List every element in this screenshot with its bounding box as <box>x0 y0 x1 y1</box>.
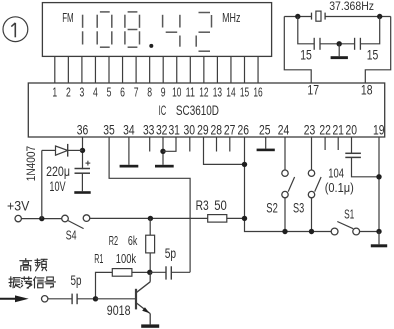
display module box <box>42 3 271 57</box>
wire pin19 rail <box>378 137 380 232</box>
ground bus <box>371 232 387 248</box>
svg-text:15: 15 <box>240 85 249 100</box>
svg-text:6k: 6k <box>128 234 138 248</box>
wire cap to pin35 riser <box>171 271 190 273</box>
svg-text:36: 36 <box>77 122 89 137</box>
7-segment digit 0 <box>97 12 112 47</box>
wire S1 to pin19 rail <box>360 231 379 233</box>
svg-text:20: 20 <box>346 122 358 137</box>
7-segment digit 1 <box>82 15 84 45</box>
label zhendang xinhao (Chinese: oscillation signal) <box>9 277 55 288</box>
ground crystal caps <box>331 44 348 59</box>
ground pin32 <box>155 165 174 168</box>
IC U1 SC3610D body <box>28 83 384 137</box>
ground emitter <box>141 324 159 327</box>
label S4 <box>66 228 77 242</box>
svg-text:S1: S1 <box>344 206 354 221</box>
svg-text:SC3610D: SC3610D <box>176 103 219 118</box>
figure number 1 in circle <box>3 17 28 42</box>
svg-text:35: 35 <box>103 122 115 137</box>
IC bottom pin numbers 36-19 <box>77 122 385 137</box>
label 5p input <box>71 273 82 288</box>
wire pin29 to pin26 rail <box>204 137 245 164</box>
label 6k <box>128 234 138 248</box>
node dot diode branch <box>39 216 44 221</box>
svg-text:8: 8 <box>147 85 152 100</box>
wire R1 right <box>132 271 150 273</box>
capacitor 15 left <box>314 38 320 50</box>
display pin wires 1-16 <box>55 56 258 83</box>
stub pin 33 <box>149 137 151 152</box>
svg-text:104: 104 <box>328 166 344 180</box>
label 15 right <box>367 48 379 63</box>
wire pin31 jog <box>163 137 176 151</box>
svg-text:22: 22 <box>319 122 331 137</box>
svg-text:25: 25 <box>259 122 271 137</box>
resistor R1 100k <box>112 269 132 277</box>
wire to pin 17 <box>284 17 311 84</box>
switch S2 <box>282 137 295 232</box>
svg-text:S3: S3 <box>293 201 304 216</box>
wire pin20 down <box>351 137 353 153</box>
wire pin35 L-path <box>109 137 190 272</box>
wire pin34 down <box>128 137 130 165</box>
wire to pin 18 <box>365 17 390 84</box>
svg-text:10V: 10V <box>49 179 65 194</box>
wire caps middle <box>320 43 355 45</box>
wire terminal to cap <box>48 298 72 300</box>
node dot S3 bus <box>309 229 314 234</box>
svg-text:9018: 9018 <box>107 303 131 318</box>
label R1 <box>94 251 103 266</box>
MHz label <box>222 10 240 25</box>
terminal +3V <box>15 215 21 221</box>
svg-text:MHz: MHz <box>222 10 240 25</box>
switch S3 <box>308 137 321 232</box>
svg-text:(0.1μ): (0.1μ) <box>325 181 354 195</box>
stub pin 21 <box>337 137 339 150</box>
diode 1N4007 <box>42 144 83 157</box>
resistor R3 50 <box>208 215 227 223</box>
wire crystal rail left <box>284 16 311 18</box>
FM label <box>62 11 73 25</box>
svg-text:14: 14 <box>226 85 235 100</box>
wire base <box>96 298 137 300</box>
svg-text:100k: 100k <box>116 251 137 266</box>
svg-text:31: 31 <box>168 122 180 137</box>
ground pin25 <box>257 149 275 152</box>
label S2 <box>266 201 278 216</box>
svg-text:18: 18 <box>361 81 373 97</box>
node dot crystal right <box>377 14 382 19</box>
svg-text:S2: S2 <box>266 201 278 216</box>
pin 18 label <box>361 81 373 97</box>
svg-text:15: 15 <box>367 48 379 63</box>
label 9018 <box>107 303 131 318</box>
node dot bus pin19 <box>376 229 381 234</box>
label +3V <box>7 198 29 213</box>
capacitor 5p input <box>72 294 77 305</box>
wire right branch to caps <box>360 17 379 44</box>
svg-text:33: 33 <box>143 122 155 137</box>
resistor R2 6k <box>146 235 155 253</box>
capacitor 104 <box>345 153 361 157</box>
label 50 <box>214 198 227 213</box>
stub pin 30 <box>189 137 191 152</box>
wire +3V to S4 <box>21 218 61 220</box>
wire cap to base node <box>77 298 95 300</box>
svg-text:5p: 5p <box>71 273 82 288</box>
label 10V <box>49 179 65 194</box>
capacitor 15 right <box>355 38 361 50</box>
label gaopin (Chinese: high frequency) <box>20 259 47 271</box>
node dot R3 right <box>242 216 247 221</box>
label 37.368Hz <box>329 0 374 13</box>
input terminal <box>42 296 48 302</box>
svg-text:S4: S4 <box>66 228 77 242</box>
wire crystal rail right <box>325 16 391 18</box>
svg-text:10: 10 <box>172 85 181 100</box>
node dot pin29 junction <box>242 162 247 167</box>
svg-text:220μ: 220μ <box>46 164 70 179</box>
svg-text:2: 2 <box>66 85 71 100</box>
wire collector to cap <box>150 271 166 273</box>
label 1N4007 <box>24 146 38 182</box>
svg-text:28: 28 <box>211 122 223 137</box>
svg-text:R3: R3 <box>196 198 209 213</box>
label S1 <box>344 206 354 221</box>
svg-text:6: 6 <box>120 85 125 100</box>
wire pin32 down <box>162 137 164 165</box>
7-segment digit 2 <box>196 13 211 52</box>
svg-text:26: 26 <box>238 122 250 137</box>
7-segment digit 8 <box>125 12 140 47</box>
svg-text:3: 3 <box>80 85 85 100</box>
svg-text:32: 32 <box>156 122 168 137</box>
svg-text:1: 1 <box>52 85 57 100</box>
svg-text:30: 30 <box>184 122 196 137</box>
svg-text:IC: IC <box>159 103 167 118</box>
decimal point <box>149 44 153 48</box>
node dot R2 top <box>148 216 153 221</box>
node dot collector <box>147 270 152 275</box>
node dot base <box>93 296 98 301</box>
node dot S2 bus <box>282 229 287 234</box>
7-segment digit 4 <box>163 15 180 47</box>
svg-text:15: 15 <box>300 48 312 63</box>
svg-text:19: 19 <box>373 122 385 137</box>
IC name label <box>159 103 220 118</box>
svg-text:13: 13 <box>213 85 222 100</box>
wire R2 bottom <box>149 253 151 272</box>
capacitor 220u electrolytic <box>75 161 91 192</box>
switch S1 <box>331 222 359 235</box>
stub pin 27 <box>229 137 231 152</box>
pin 17 label <box>307 81 319 97</box>
wire R2 top <box>149 218 151 235</box>
svg-text:+3V: +3V <box>7 198 29 213</box>
stub pin 22 <box>324 137 326 150</box>
switch S4 <box>62 215 90 229</box>
svg-text:24: 24 <box>278 122 290 137</box>
svg-text:7: 7 <box>134 85 139 100</box>
IC top pin numbers 1-16 <box>52 85 262 100</box>
svg-text:5: 5 <box>107 85 112 100</box>
label 5p output <box>165 246 176 261</box>
ground 220u <box>74 191 90 194</box>
transistor Q1 9018 <box>136 272 150 324</box>
wire 104 to pin19 rail <box>352 157 380 176</box>
label 0.1u <box>325 181 354 195</box>
svg-text:1N4007: 1N4007 <box>24 146 38 182</box>
wire left branch to caps <box>298 17 314 44</box>
svg-text:12: 12 <box>199 85 208 100</box>
label 100k <box>116 251 137 266</box>
svg-text:17: 17 <box>307 81 319 97</box>
wire S4 to R2 node <box>90 217 208 219</box>
label 104 <box>328 166 344 180</box>
node dot crystal left <box>295 14 300 19</box>
label S3 <box>293 201 304 216</box>
crystal X1 <box>312 11 326 21</box>
wire diode branch vertical <box>41 150 43 218</box>
node dot pin32 <box>160 149 165 154</box>
svg-text:11: 11 <box>186 85 195 100</box>
svg-text:21: 21 <box>332 122 344 137</box>
wire R1 left <box>96 272 113 298</box>
ground pin34 <box>120 165 139 168</box>
svg-text:29: 29 <box>197 122 209 137</box>
stub pin 28 <box>216 137 218 152</box>
svg-text:R1: R1 <box>94 251 103 266</box>
label R2 <box>109 234 118 248</box>
svg-text:FM: FM <box>62 11 73 25</box>
input arrow <box>0 295 29 302</box>
svg-text:16: 16 <box>253 85 262 100</box>
wire pin36 down <box>82 137 84 169</box>
label R3 <box>196 198 209 213</box>
svg-text:50: 50 <box>214 198 227 213</box>
wire pin26 rail <box>245 137 332 232</box>
svg-text:27: 27 <box>224 122 236 137</box>
svg-text:5p: 5p <box>165 246 176 261</box>
label 220u <box>46 164 70 179</box>
node dot pin36 diode <box>80 148 85 153</box>
svg-text:37.368Hz: 37.368Hz <box>329 0 374 13</box>
capacitor 5p output <box>166 266 171 279</box>
svg-text:23: 23 <box>304 122 316 137</box>
wire R3 to pin26 rail <box>227 217 245 219</box>
svg-text:4: 4 <box>93 85 98 100</box>
svg-text:34: 34 <box>123 122 135 137</box>
svg-text:R2: R2 <box>109 234 118 248</box>
node dot 104 junction <box>376 174 381 179</box>
node dot caps middle <box>337 41 342 46</box>
label 15 left <box>300 48 312 63</box>
wire pin25 down <box>265 137 267 149</box>
svg-text:9: 9 <box>161 85 166 100</box>
